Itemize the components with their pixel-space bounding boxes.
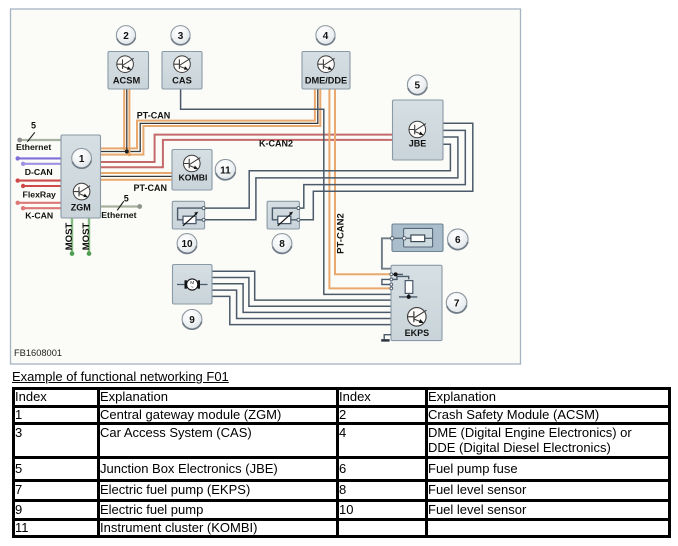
svg-text:DME/DDE: DME/DDE: [305, 75, 347, 85]
svg-text:EKPS: EKPS: [405, 328, 430, 338]
svg-text:5: 5: [124, 194, 129, 204]
svg-text:9: 9: [189, 315, 195, 326]
svg-text:5: 5: [415, 81, 421, 92]
svg-text:PT-CAN: PT-CAN: [137, 111, 171, 121]
svg-text:7: 7: [454, 298, 460, 309]
svg-text:JBE: JBE: [409, 139, 427, 149]
svg-text:6: 6: [455, 235, 461, 246]
svg-text:FB1608001: FB1608001: [14, 348, 62, 358]
svg-text:5: 5: [31, 121, 36, 131]
svg-text:4: 4: [323, 31, 329, 42]
svg-text:D-CAN: D-CAN: [25, 167, 53, 177]
svg-text:ACSM: ACSM: [113, 75, 141, 85]
svg-text:Ethernet: Ethernet: [101, 210, 136, 220]
svg-text:Ethernet: Ethernet: [16, 142, 51, 152]
svg-text:ZGM: ZGM: [71, 203, 91, 213]
svg-text:FlexRay: FlexRay: [23, 189, 56, 199]
svg-text:MOST: MOST: [81, 223, 92, 251]
svg-text:3: 3: [178, 31, 184, 42]
svg-text:~: ~: [191, 285, 194, 291]
svg-text:1: 1: [79, 154, 85, 165]
svg-text:K-CAN: K-CAN: [25, 211, 53, 221]
svg-text:PT-CAN: PT-CAN: [133, 183, 167, 193]
svg-text:CAS: CAS: [172, 75, 192, 85]
svg-text:K-CAN2: K-CAN2: [259, 138, 293, 148]
svg-text:10: 10: [181, 239, 193, 250]
svg-text:2: 2: [123, 31, 129, 42]
svg-text:PT-CAN2: PT-CAN2: [336, 213, 347, 254]
svg-text:11: 11: [220, 165, 231, 176]
svg-text:KOMBI: KOMBI: [179, 173, 208, 183]
svg-text:8: 8: [279, 239, 285, 250]
svg-text:MOST: MOST: [64, 223, 75, 251]
